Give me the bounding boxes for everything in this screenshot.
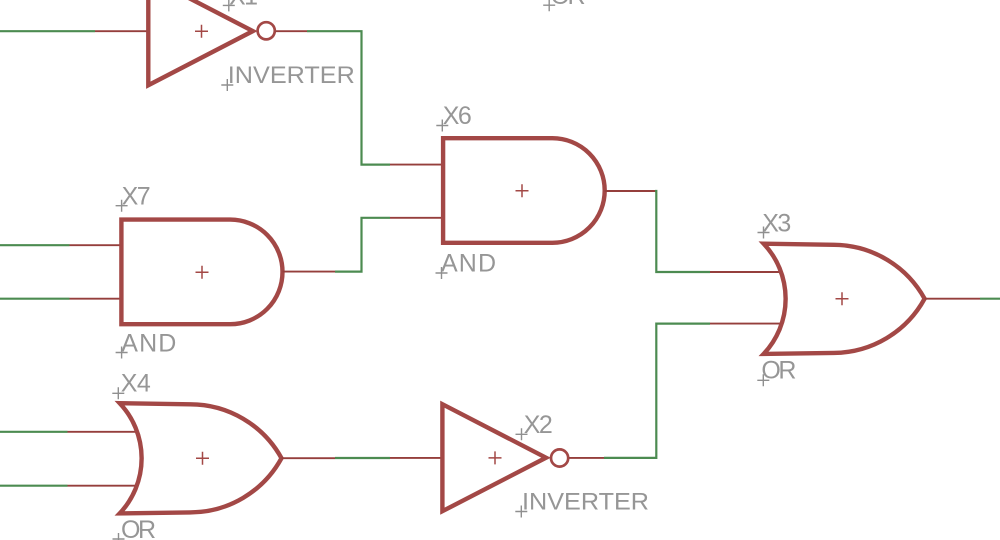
wire X6 output to X3 upper input <box>655 191 710 272</box>
svg-text:X7: X7 <box>122 182 151 210</box>
inverter X1 <box>148 0 253 85</box>
origin cross X1 <box>195 25 208 38</box>
origin cross label X4 <box>112 387 124 399</box>
svg-text:OR: OR <box>761 357 796 385</box>
origin cross label AND X6 <box>436 267 448 279</box>
origin cross X7 <box>196 266 209 279</box>
svg-text:OR: OR <box>121 516 156 540</box>
pin X6 input upper <box>390 164 443 166</box>
origin cross label OR top <box>543 0 555 11</box>
svg-text:X6: X6 <box>443 102 472 130</box>
pin X6 input lower <box>390 217 443 219</box>
svg-text:INVERTER: INVERTER <box>522 489 649 516</box>
origin cross label X2 <box>516 428 528 440</box>
pin X3 input B <box>710 323 781 325</box>
and-gate X7 <box>121 220 282 325</box>
pin X7 output <box>283 271 336 273</box>
or-gate X3 <box>764 244 925 354</box>
origin cross label INVERTER X1 <box>221 79 233 91</box>
wire X7 output to X6 lower input <box>335 218 390 272</box>
inverter X2 <box>442 404 546 511</box>
origin cross X6 <box>516 184 529 197</box>
wire X3 output net <box>980 298 1000 300</box>
pin X6 output <box>605 190 655 192</box>
pin X4 input B <box>68 485 138 487</box>
origin cross label OR X4 <box>113 533 125 540</box>
svg-text:AND: AND <box>441 249 496 277</box>
origin cross X4 <box>196 452 209 465</box>
pin X1 input <box>95 30 148 32</box>
wire X7 input A net <box>0 244 70 246</box>
pin X2 output <box>569 457 604 459</box>
or-gate X4 <box>120 403 282 513</box>
and-gate X6 <box>443 138 605 243</box>
bubble X2 <box>551 449 568 466</box>
pin X4 output <box>282 457 336 459</box>
origin cross label X7 <box>116 200 128 212</box>
origin cross X3 <box>836 292 849 305</box>
bubble X1 <box>258 22 275 39</box>
pin X3 output <box>925 298 980 300</box>
svg-text:X3: X3 <box>762 209 791 237</box>
wire X4 input B net <box>0 485 68 487</box>
origin cross label OR X3 <box>757 374 769 386</box>
wire X1 input net <box>0 30 95 32</box>
pin X7 input A <box>70 244 122 246</box>
wire X7 input B net <box>0 298 70 300</box>
pin X2 input <box>390 457 442 459</box>
origin cross label X1 <box>223 0 235 11</box>
svg-text:INVERTER: INVERTER <box>228 62 355 89</box>
svg-text:AND: AND <box>121 330 176 358</box>
svg-text:X1: X1 <box>229 0 258 11</box>
origin cross label AND X7 <box>116 347 128 359</box>
pin X4 input A <box>68 431 138 433</box>
origin cross X2 <box>489 451 502 464</box>
pin X7 input B <box>70 298 122 300</box>
pin X1 output <box>276 30 307 32</box>
pin X3 input A <box>710 271 781 273</box>
svg-text:OR: OR <box>551 0 586 10</box>
wire X2 output to X3 lower input <box>604 324 710 458</box>
svg-text:X2: X2 <box>524 411 553 439</box>
origin cross label X3 <box>758 227 770 239</box>
wire X4 input A net <box>0 431 68 433</box>
origin cross label INVERTER X2 <box>515 506 527 518</box>
wire X4 output to X2 input <box>335 457 390 459</box>
origin cross label X6 <box>436 120 448 132</box>
wire X1 output to X6 upper input <box>307 31 390 164</box>
svg-text:X4: X4 <box>121 370 151 398</box>
